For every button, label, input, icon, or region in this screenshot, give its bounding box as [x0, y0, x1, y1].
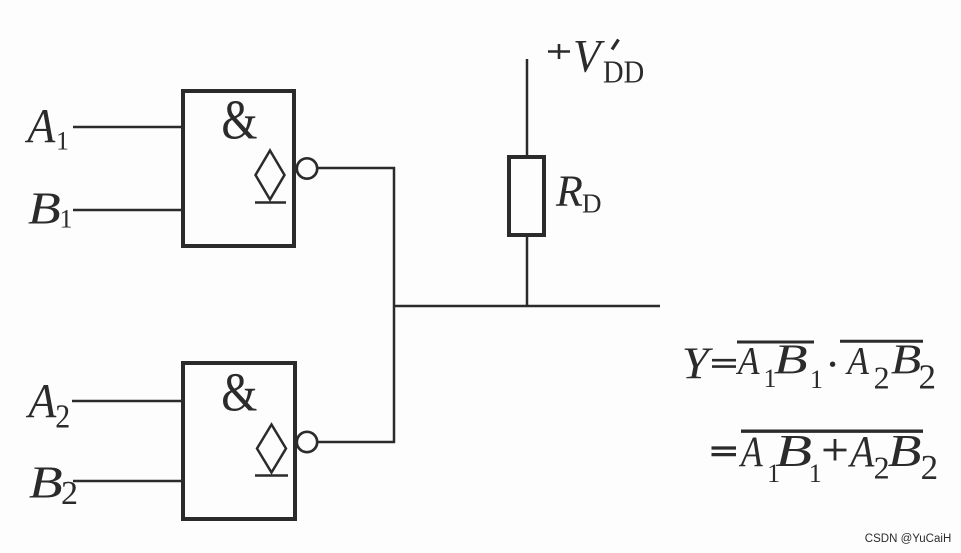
svg-text:&: & [221, 363, 257, 424]
label A1 [25, 100, 69, 156]
equals sign [712, 446, 737, 449]
resistor RD box [509, 157, 544, 235]
svg-text:V: V [573, 30, 605, 82]
NAND gate U2 box [183, 363, 295, 519]
svg-text:B: B [28, 182, 61, 233]
wire gate2 output [318, 441, 395, 444]
gate U1 open-drain diamond [256, 151, 285, 200]
overline bar over A1B1 [737, 341, 814, 344]
multiplication dot [830, 362, 835, 367]
svg-text:B: B [891, 336, 921, 383]
gate U1 diamond underline [255, 201, 286, 204]
svg-text:B: B [775, 425, 812, 476]
wire resistor to bus [526, 235, 529, 306]
svg-text:B: B [888, 426, 922, 476]
label B1 [28, 182, 73, 233]
svg-text:R: R [555, 167, 583, 216]
wire output bus Y [394, 305, 660, 308]
wire A1 input [73, 126, 183, 129]
wire B2 input [73, 480, 183, 483]
svg-text:A: A [26, 375, 58, 429]
gate U2 diamond underline [255, 474, 288, 477]
overline bar over A1B1+A2B2 [741, 430, 923, 433]
svg-text:2: 2 [921, 448, 939, 487]
gate U1 inversion bubble [297, 158, 317, 178]
label +VDD' supply [548, 30, 644, 90]
svg-text:A: A [25, 100, 57, 154]
svg-text:A: A [735, 340, 760, 383]
svg-text:&: & [221, 90, 257, 152]
wire VDD to resistor [526, 59, 529, 157]
svg-text:A: A [844, 340, 869, 383]
svg-text:B: B [29, 458, 63, 509]
svg-text:2: 2 [61, 475, 78, 512]
svg-text:2: 2 [919, 358, 937, 397]
formula line 1: Y = A1B1bar dot A2B2bar [682, 336, 936, 397]
overline bar over A2B2 [840, 340, 923, 343]
label B2 [29, 458, 78, 512]
svg-text:1: 1 [56, 127, 69, 156]
label A2 [26, 375, 71, 435]
wire vertical join [393, 167, 396, 443]
formula line 2: = A1B1+A2B2 all overlined [712, 425, 939, 488]
svg-text:A: A [847, 428, 874, 476]
svg-text:2: 2 [55, 397, 70, 435]
svg-text:1: 1 [810, 365, 823, 394]
svg-text:DD: DD [603, 54, 644, 90]
svg-text:1: 1 [60, 205, 73, 234]
gate U2 inversion bubble [297, 432, 317, 452]
wire A2 input [72, 400, 183, 403]
svg-text:A: A [738, 428, 763, 476]
svg-text:CSDN @YuCaiH: CSDN @YuCaiH [865, 533, 951, 545]
wire B1 input [73, 209, 183, 212]
equals sign [712, 359, 736, 362]
svg-text:2: 2 [874, 360, 890, 396]
plus sign [548, 50, 570, 53]
prime mark [612, 40, 619, 50]
gate U2 open-drain diamond [257, 425, 286, 473]
wire gate1 output [317, 167, 395, 170]
svg-text:D: D [582, 189, 602, 219]
plus sign [824, 449, 847, 452]
label RD [555, 167, 602, 219]
NAND gate U1 box [183, 91, 294, 246]
svg-text:1: 1 [809, 459, 822, 488]
